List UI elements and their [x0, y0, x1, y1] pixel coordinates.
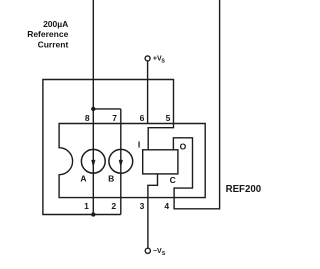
arrow source A: [91, 160, 95, 168]
svg-text:S: S: [161, 58, 165, 64]
svg-text:REF200: REF200: [226, 184, 262, 195]
svg-text:−V: −V: [153, 248, 162, 255]
wire: bottom tie pin1 to pin2: [93, 214, 121, 216]
terminal circle -Vs: [145, 248, 150, 253]
current source B circle: [109, 149, 133, 173]
junction dot top (pins 8/7 tie): [91, 107, 95, 111]
svg-text:2: 2: [111, 201, 116, 211]
svg-text:I: I: [138, 139, 140, 149]
wire: 200uA reference current feed, pin 8, through source A, pin 1: [92, 0, 94, 215]
junction dot bottom (pins 1/2 tie): [91, 212, 95, 216]
wire: mirror common C down to pin 3 and -Vs: [148, 174, 158, 248]
svg-text:Current: Current: [38, 40, 69, 50]
svg-text:3: 3: [140, 201, 145, 211]
chip DIP-8 package outline with notch: [59, 124, 205, 198]
wire: mirror output O loop, pin 4, up right side to top: [173, 0, 219, 209]
current source A circle: [81, 149, 105, 173]
wire: outer left loop from bottom tie up and over to pin 5, into mirror input: [43, 80, 174, 215]
wire: +Vs feed down to pin 6: [147, 61, 149, 123]
current mirror block: [143, 150, 178, 174]
terminal circle +Vs: [145, 56, 150, 61]
svg-text:200µA: 200µA: [43, 19, 68, 29]
svg-text:Reference: Reference: [27, 29, 68, 39]
svg-text:7: 7: [112, 113, 117, 123]
wire: top tie pin8 to pin7: [93, 108, 121, 110]
arrow source B: [119, 160, 123, 168]
wire: pin 7, through source B, pin 2: [120, 109, 122, 215]
svg-text:6: 6: [140, 113, 145, 123]
svg-text:8: 8: [85, 113, 90, 123]
svg-text:1: 1: [84, 201, 89, 211]
svg-text:4: 4: [164, 201, 169, 211]
svg-text:B: B: [108, 173, 114, 183]
svg-text:5: 5: [166, 113, 171, 123]
svg-text:S: S: [162, 251, 166, 257]
svg-text:C: C: [170, 175, 176, 185]
svg-text:A: A: [80, 173, 86, 183]
svg-text:O: O: [180, 141, 187, 151]
